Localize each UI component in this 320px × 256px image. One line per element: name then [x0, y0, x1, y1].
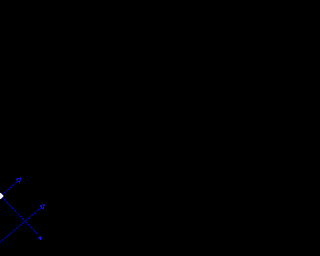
axis Z filled arrowhead [38, 236, 42, 240]
axis Y open triangular arrowhead [16, 178, 20, 182]
axis Z shaft (dashed, down-right from origin handle) [1, 196, 38, 235]
axis X shaft (dashed, from lower-left edge up-right) [0, 207, 42, 243]
axis X open triangular arrowhead [40, 205, 44, 209]
axis Y shaft (dashed, up-right from origin handle) [1, 181, 18, 196]
origin handle (white square, clipped at left edge) [0, 193, 4, 199]
